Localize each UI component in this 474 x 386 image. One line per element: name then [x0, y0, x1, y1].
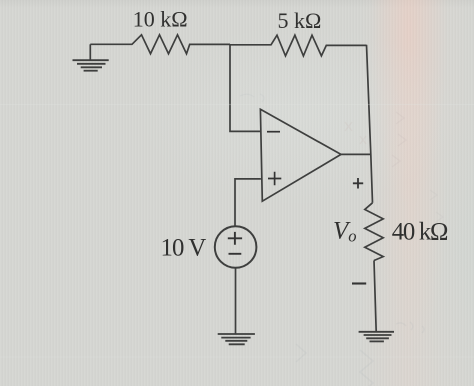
- svg-text:Vo: Vo: [333, 218, 357, 246]
- svg-text:40 kΩ: 40 kΩ: [392, 219, 448, 246]
- svg-text:10 kΩ: 10 kΩ: [133, 7, 188, 32]
- svg-text:10 V: 10 V: [161, 235, 207, 262]
- svg-text:5 kΩ: 5 kΩ: [278, 8, 322, 33]
